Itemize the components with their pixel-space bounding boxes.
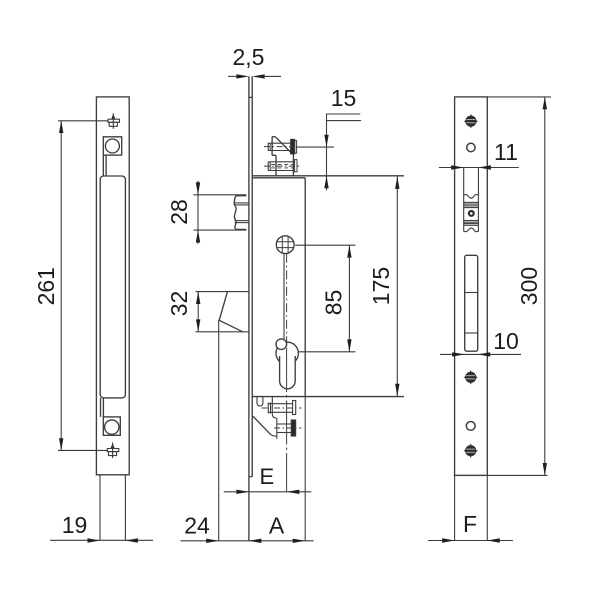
fixing screw (middle body)	[276, 236, 294, 254]
lower cutout (right view)	[465, 255, 478, 351]
latch bolt (middle, protruding left)	[219, 292, 243, 541]
dimension text F	[463, 511, 477, 537]
dimension text 28	[166, 199, 192, 225]
dimension 85 line and arrows	[347, 245, 351, 352]
dimension 24 / A line and arrows	[181, 539, 314, 543]
roller box top (left view)	[103, 137, 121, 155]
dimension text 24	[184, 513, 210, 539]
dimension 261 extension lines	[58, 121, 108, 451]
top screw (right view, filled)	[464, 114, 479, 129]
dimension text 2,5	[233, 44, 265, 70]
dimension text 300	[516, 267, 542, 305]
faceplate front view (right) outer rectangle	[455, 97, 488, 476]
dimension F line and arrows	[428, 538, 513, 542]
svg-text:15: 15	[331, 85, 357, 111]
svg-text:28: 28	[166, 199, 192, 225]
roller bolt front view (right)	[464, 195, 479, 232]
dimension text 19	[62, 512, 88, 538]
svg-text:E: E	[259, 464, 274, 489]
screw S2 bottom-left adjuster symbol	[107, 443, 119, 459]
svg-text:24: 24	[184, 513, 210, 539]
euro cylinder profile	[276, 339, 298, 389]
dimension E line and arrows	[224, 490, 311, 494]
dimension text E	[259, 464, 274, 489]
cylinder axis centerline	[286, 254, 288, 492]
small hole (right view top)	[467, 143, 475, 151]
dimension 300 top extension	[487, 96, 551, 98]
dimension text 261	[33, 267, 59, 305]
dimension 32 extension lines	[196, 292, 249, 332]
svg-text:85: 85	[321, 290, 347, 316]
dimension 11 line and arrows	[439, 165, 519, 169]
svg-text:261: 261	[33, 267, 59, 305]
small hole (right view bottom)	[466, 422, 475, 431]
dimension text 11	[494, 139, 518, 165]
dimension 32 line and arrows	[196, 292, 200, 332]
faceplate side view (left) outer rectangle	[96, 97, 129, 475]
dimension 28 extension lines	[194, 195, 247, 230]
dimension text 10	[493, 328, 519, 354]
svg-text:2,5: 2,5	[233, 44, 265, 70]
dimension text 85	[321, 290, 347, 316]
dimension 15 leader and text	[296, 114, 361, 190]
dimension 175 line and arrows	[395, 177, 399, 397]
300 end line (right view)	[454, 474, 548, 476]
svg-text:10: 10	[493, 328, 519, 354]
svg-text:11: 11	[494, 139, 518, 165]
svg-text:A: A	[269, 512, 285, 538]
svg-text:F: F	[463, 511, 477, 537]
dimension 10 line and arrows	[440, 352, 521, 356]
strip below inner slot (left view)	[101, 398, 104, 417]
dimension text A	[269, 512, 285, 538]
svg-text:175: 175	[368, 267, 394, 305]
dimension 28 line and arrows	[196, 181, 200, 244]
lock case body (middle)	[252, 176, 404, 541]
screw S1 top-left adjuster symbol	[108, 113, 120, 129]
dimension F extension lines	[455, 475, 488, 540]
dimension 19 extension lines	[100, 475, 125, 541]
bottom hook mechanism (middle)	[253, 397, 302, 439]
bottom screw (right view, filled)	[463, 443, 478, 458]
dimension text 32	[166, 291, 192, 317]
roller box bottom (left view)	[103, 417, 120, 435]
middle screw (right view, filled)	[463, 370, 478, 385]
inner slot (left view)	[100, 176, 125, 398]
faceplate edge view (middle) two vertical lines	[249, 76, 252, 540]
dimension 19 line and arrows	[50, 538, 153, 542]
dimension 300 line and arrows	[543, 97, 547, 476]
dimension 261 line and arrows	[59, 121, 63, 451]
dimension 85 extension lines	[295, 245, 355, 352]
follower nut (middle, protruding left)	[234, 196, 248, 230]
dimension text 175	[368, 267, 394, 305]
svg-text:32: 32	[166, 291, 192, 317]
latch channel (right view)	[464, 168, 479, 232]
strip above inner slot (left view)	[103, 155, 106, 176]
top hook mechanism (middle)	[264, 137, 301, 176]
svg-text:300: 300	[516, 267, 542, 305]
dimension 2,5 line and arrows	[228, 74, 281, 78]
svg-text:19: 19	[62, 512, 88, 538]
follower slot line	[283, 254, 285, 340]
